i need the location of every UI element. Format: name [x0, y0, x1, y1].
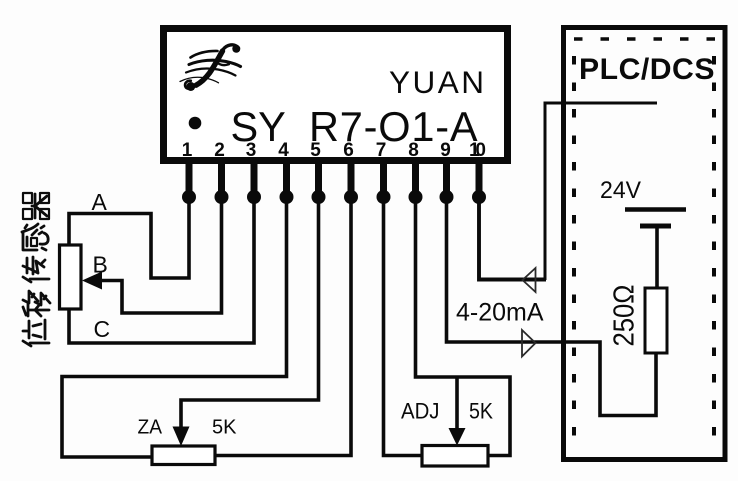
wire pin6 to ZA right terminal: [215, 197, 351, 456]
node label B: [93, 252, 108, 278]
node label A: [92, 189, 108, 215]
svg-text:4-20mA: 4-20mA: [456, 299, 544, 327]
model text SY R7-O1-A: [231, 103, 479, 150]
wire pin1 to node A (pot top): [69, 197, 189, 278]
svg-text:8: 8: [408, 140, 419, 161]
svg-text:ADJ: ADJ: [401, 399, 440, 424]
ZA wiper arrow (points down): [173, 427, 190, 447]
pin number 3: [246, 140, 257, 161]
wire pin2 to node B (wiper): [100, 197, 222, 313]
PLC/DCS enclosure box: [564, 28, 726, 460]
wire pin5 to ZA wiper: [181, 197, 319, 427]
pin number 5: [310, 140, 321, 161]
svg-text:R7-O1-A: R7-O1-A: [309, 103, 478, 150]
potentiometer RP (displacement sensor) body: [60, 245, 82, 309]
wire pin7 to ADJ left terminal: [384, 197, 423, 456]
pin 1 index dot: [189, 117, 202, 130]
pin 3: [247, 160, 261, 204]
label 位移传感器 (displacement sensor, rotated): [22, 193, 50, 346]
svg-text:A: A: [92, 189, 108, 215]
svg-text:ZA: ZA: [138, 416, 163, 439]
svg-text:6: 6: [343, 140, 354, 161]
pin number 8: [408, 140, 419, 161]
potentiometer ZA body: [152, 446, 215, 465]
pin 2: [215, 160, 229, 204]
wire pin3 to node C (pot bottom): [69, 197, 254, 343]
svg-text:24V: 24V: [600, 177, 642, 204]
char 器: [23, 193, 49, 219]
label 24V: [600, 177, 642, 204]
battery B1 24V plate long (+): [625, 207, 686, 212]
wire branch pin8 to ADJ wiper: [455, 376, 459, 429]
pin 5: [312, 160, 326, 204]
svg-text:5: 5: [310, 140, 321, 161]
pin 1 (stub + junction dot): [182, 160, 196, 204]
label ADJ: [401, 399, 440, 424]
svg-text:C: C: [94, 316, 111, 342]
label 5K (ZA value): [212, 416, 237, 439]
svg-text:1: 1: [182, 140, 193, 161]
pin 6: [344, 160, 358, 204]
pin number 9: [440, 140, 451, 161]
char 传: [23, 257, 49, 282]
wire pin8 to ADJ right terminal: [416, 197, 511, 456]
current arrow into pin10 (open, pointing left): [523, 268, 536, 292]
svg-text:7: 7: [376, 140, 387, 161]
pin 7: [377, 160, 391, 204]
PLC dashed inner border right: [712, 56, 716, 440]
pin 10: [472, 160, 486, 204]
pin number 6: [343, 140, 354, 161]
svg-text:YUAN: YUAN: [389, 64, 487, 100]
battery B1 plate short (-): [640, 224, 671, 229]
svg-text:250Ω: 250Ω: [609, 285, 641, 347]
pin number 2: [214, 140, 225, 161]
pin number 10: [469, 140, 486, 161]
current arrow to PLC (open, pointing right): [522, 330, 536, 357]
char 感: [22, 224, 48, 250]
pin 9: [440, 160, 454, 204]
label 4-20mA: [456, 299, 544, 327]
svg-text:4: 4: [278, 140, 289, 161]
svg-text:5K: 5K: [469, 399, 493, 424]
node label C: [94, 316, 111, 342]
label 250 ohm (rotated): [609, 285, 641, 347]
wire 4-20mA loop feed (thin): [545, 103, 657, 280]
svg-text:5K: 5K: [212, 416, 237, 439]
label PLC/DCS: [579, 53, 715, 86]
label 5K (ADJ value): [469, 399, 493, 424]
char 移: [23, 291, 50, 316]
label ZA: [138, 416, 163, 439]
pin number 1: [182, 140, 193, 161]
pin number 4: [278, 140, 289, 161]
svg-text:10: 10: [469, 140, 486, 161]
wire pin4 to ZA left terminal: [62, 197, 287, 457]
resistor R1 250ohm body: [645, 288, 667, 353]
pin number 7: [376, 140, 387, 161]
pin 8: [409, 160, 423, 204]
svg-text:9: 9: [440, 140, 451, 161]
ADJ wiper arrow (points down): [449, 428, 466, 446]
wire pin9 to PLC (250 ohm return): [447, 197, 657, 416]
wire pin10 output segment: [479, 197, 546, 280]
potentiometer ADJ body: [422, 446, 488, 467]
RP wiper arrow (points left into pot): [82, 272, 102, 290]
svg-text:PLC/DCS: PLC/DCS: [579, 53, 715, 86]
pin 4: [280, 160, 294, 204]
PLC dashed inner border top: [574, 37, 718, 41]
logo (script f flourish): [180, 45, 241, 91]
svg-text:2: 2: [214, 140, 225, 161]
PLC dashed inner border left: [572, 56, 576, 440]
module U1 SY R7-O1-A body: [164, 29, 508, 161]
char 位: [23, 320, 49, 346]
brand text YUAN: [389, 64, 487, 100]
wire battery to resistor: [655, 228, 659, 288]
svg-text:3: 3: [246, 140, 257, 161]
